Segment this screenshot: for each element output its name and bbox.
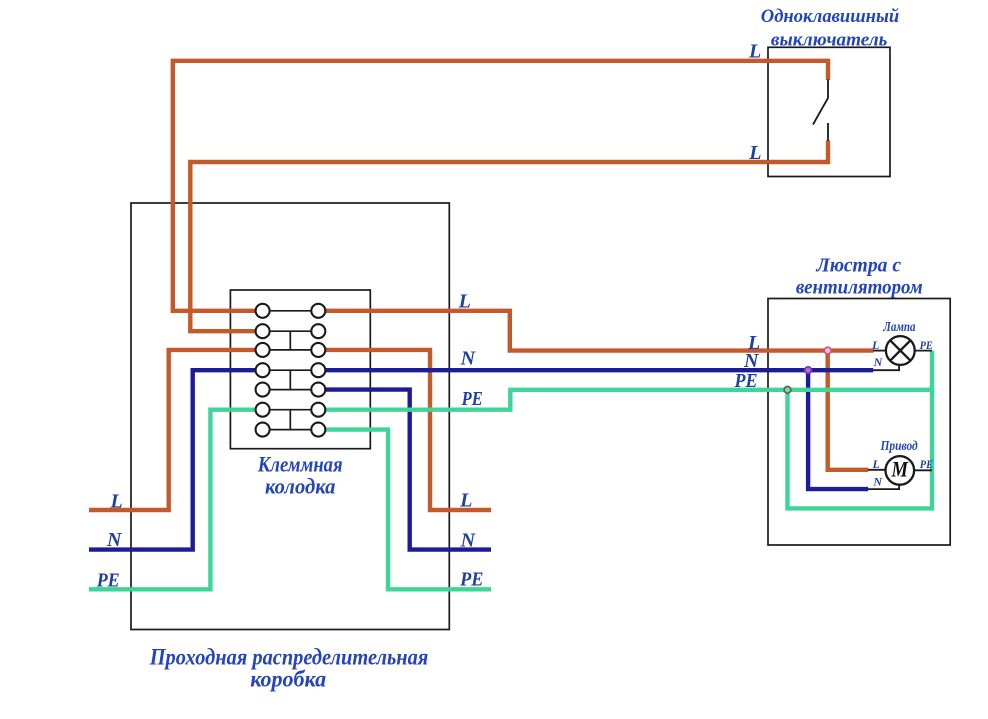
svg-text:PE: PE <box>96 569 120 591</box>
wire PE row6 right to lamp <box>325 390 932 410</box>
svg-text:L: L <box>748 142 761 164</box>
terminal jumpers <box>270 311 312 430</box>
wire PE lamp loop to motor <box>788 351 933 509</box>
wire L junction to motor <box>828 351 869 470</box>
switch contact symbol <box>813 80 828 142</box>
svg-text:L: L <box>872 457 880 471</box>
lamp stub N <box>873 365 899 370</box>
junction PE green <box>784 386 791 393</box>
svg-text:L: L <box>109 491 122 513</box>
svg-text:коробка: коробка <box>250 667 326 692</box>
svg-text:L: L <box>458 291 471 313</box>
svg-text:N: N <box>872 475 883 489</box>
svg-text:N: N <box>106 529 123 551</box>
svg-text:PE: PE <box>734 370 758 392</box>
svg-text:M: M <box>891 456 910 481</box>
svg-text:L: L <box>871 338 879 352</box>
terminal block outline <box>230 290 370 449</box>
svg-text:N: N <box>743 350 760 372</box>
lamp stub PE <box>915 350 932 352</box>
lamp stub L <box>873 350 886 352</box>
wire L supply to row3 <box>89 350 256 510</box>
wire PE supply to row6 <box>89 410 256 590</box>
svg-text:PE: PE <box>920 457 933 471</box>
terminal block circles left column <box>256 304 270 437</box>
svg-text:PE: PE <box>461 388 483 410</box>
terminal block circles right column <box>311 304 325 437</box>
junction L pink <box>824 347 831 354</box>
svg-text:PE: PE <box>920 338 933 352</box>
wire PE row7 right to outgoing <box>325 430 491 590</box>
svg-text:N: N <box>460 348 477 370</box>
svg-text:L: L <box>748 41 761 63</box>
motor stub PE <box>914 469 932 471</box>
wire N row5 right to outgoing <box>325 390 491 550</box>
wire L row3 right to outgoing <box>325 350 491 510</box>
junction N purple <box>805 367 812 374</box>
svg-text:PE: PE <box>459 569 483 591</box>
switch box outline <box>768 47 890 176</box>
svg-text:вентилятором: вентилятором <box>796 277 923 299</box>
distribution box outline <box>131 203 449 630</box>
wire L row1 right to lamp <box>325 311 873 351</box>
motor stub N <box>868 484 899 489</box>
motor symbol <box>886 456 915 485</box>
wire L switch bottom to row2 <box>190 141 828 332</box>
svg-text:Лампа: Лампа <box>882 319 915 334</box>
wire N row4 right to lamp <box>325 368 873 372</box>
svg-text:Одноклавишный: Одноклавишный <box>761 6 899 27</box>
wire N junction to motor <box>808 370 868 489</box>
chandelier box outline <box>768 299 950 546</box>
wire L row1 to switch top <box>173 61 828 311</box>
svg-text:N: N <box>460 530 477 552</box>
svg-text:N: N <box>873 355 884 369</box>
motor stub L <box>868 469 886 471</box>
svg-text:Привод: Привод <box>880 438 918 453</box>
wire N supply to row4 <box>89 370 256 549</box>
svg-text:выключатель: выключатель <box>771 30 888 51</box>
lamp symbol <box>886 336 915 365</box>
svg-text:колодка: колодка <box>265 474 335 499</box>
svg-text:L: L <box>459 490 472 512</box>
svg-text:Люстра с: Люстра с <box>815 255 901 277</box>
